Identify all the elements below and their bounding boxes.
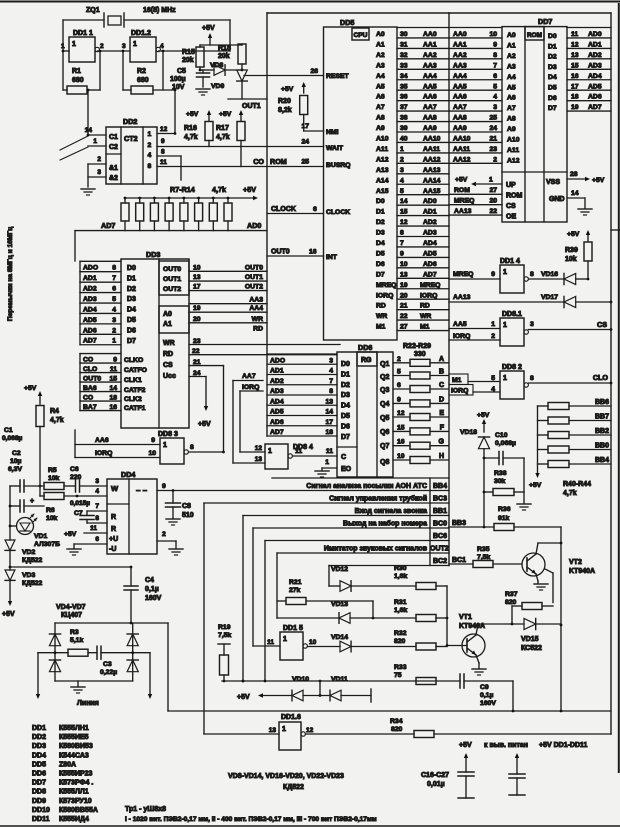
diode VD8	[199, 62, 244, 75]
svg-text:AA4: AA4	[423, 73, 437, 80]
svg-text:1: 1	[72, 41, 76, 48]
svg-text:AA2: AA2	[453, 52, 467, 59]
svg-text:23: 23	[489, 146, 497, 153]
signal row BB1 ring input	[243, 508, 449, 516]
svg-text:К580ВИ53: К580ВИ53	[59, 743, 93, 750]
capacitor C4 0,1u 160V	[124, 567, 162, 623]
svg-text:VD9: VD9	[211, 83, 224, 90]
svg-text:DD7: DD7	[538, 17, 552, 26]
svg-text:160V: 160V	[480, 700, 496, 707]
svg-text:12: 12	[306, 727, 314, 734]
svg-text:13: 13	[400, 271, 408, 278]
svg-text:16: 16	[109, 404, 117, 411]
svg-text:ROM: ROM	[527, 32, 542, 39]
CPU DD5 body	[324, 18, 398, 340]
svg-text:1,6k: 1,6k	[394, 607, 407, 614]
svg-text:+5V DD1-DD11: +5V DD1-DD11	[539, 742, 588, 749]
svg-text:WR: WR	[252, 316, 263, 323]
svg-text:0,015µ: 0,015µ	[70, 500, 90, 507]
svg-text:13: 13	[325, 398, 333, 405]
diode VD18 with +5V	[460, 412, 490, 527]
svg-text:A0: A0	[376, 31, 385, 38]
svg-text:0,1µ: 0,1µ	[480, 692, 493, 699]
wire signal row verticals	[204, 503, 329, 734]
jumper links 8/16MHz	[60, 136, 88, 160]
svg-text:CLO: CLO	[593, 373, 609, 382]
resistor array R7-R14 4,7k with +5V	[101, 185, 261, 231]
svg-text:A14: A14	[376, 177, 389, 184]
signal row BB4 analysis AON ATS	[157, 478, 449, 566]
resistor R33 and capacitor C9	[394, 664, 513, 711]
svg-text:18: 18	[109, 394, 117, 401]
svg-text:Q5: Q5	[380, 415, 389, 422]
svg-text:7: 7	[493, 62, 497, 69]
resistor R3 5,1k	[38, 629, 97, 656]
diode VD14 and resistor R32	[307, 630, 447, 652]
svg-text:VD12: VD12	[331, 566, 348, 573]
resistor R38	[483, 458, 531, 510]
svg-text:M1: M1	[452, 377, 462, 384]
svg-text:27: 27	[400, 324, 408, 331]
wire DD2 pins 2,3 and ground	[81, 156, 106, 195]
svg-text:IORQ: IORQ	[95, 450, 112, 457]
svg-text:D5: D5	[341, 413, 350, 420]
svg-text:AD1: AD1	[423, 209, 437, 216]
svg-text:EO: EO	[341, 466, 352, 473]
svg-text:A9: A9	[507, 126, 516, 133]
svg-text:D5: D5	[127, 317, 136, 324]
svg-text:39: 39	[400, 125, 408, 132]
bus ladder DD5 control rows MREQ IORQ RD WR M1	[397, 282, 449, 331]
svg-text:AD7: AD7	[101, 221, 115, 230]
svg-text:RD: RD	[376, 303, 386, 310]
gate DD1.5	[267, 625, 316, 660]
svg-text:RD: RD	[163, 351, 173, 358]
svg-text:DD7: DD7	[32, 780, 46, 787]
svg-text:Q7: Q7	[380, 443, 389, 450]
power +5V supply caps C16-C27	[421, 742, 588, 798]
transistor VT2 KT940A	[522, 542, 595, 603]
svg-text:8: 8	[400, 230, 404, 237]
svg-text:3: 3	[493, 104, 497, 111]
capacitor C3 0,22u	[97, 646, 150, 676]
svg-text:+5V: +5V	[64, 531, 77, 538]
svg-text:2: 2	[491, 333, 495, 340]
svg-text:DD1 4: DD1 4	[500, 258, 520, 265]
inverter DD1.2	[122, 30, 230, 62]
svg-text:8: 8	[329, 388, 333, 395]
svg-text:2: 2	[397, 356, 401, 363]
svg-text:AD2: AD2	[588, 52, 602, 59]
svg-text:1: 1	[268, 448, 272, 455]
svg-text:3: 3	[112, 317, 116, 324]
wire IORQ to DD8.3 pin 10	[75, 450, 160, 458]
resistor R35 on BC1 line	[449, 546, 522, 568]
svg-text:R31: R31	[394, 599, 407, 606]
svg-text:VD10: VD10	[292, 676, 309, 683]
svg-text:AA0: AA0	[423, 31, 437, 38]
svg-text:Сигнал анализа посылки АОН АТС: Сигнал анализа посылки АОН АТС	[306, 483, 427, 490]
svg-text:AD2: AD2	[423, 219, 437, 226]
wire DD1.5 input	[253, 645, 280, 647]
svg-text:A1: A1	[376, 41, 385, 48]
DD3 inner labels	[124, 265, 181, 412]
wire DD3 pin 24 Ucc +5V	[189, 370, 211, 428]
svg-text:A12: A12	[507, 157, 520, 164]
svg-text:DD5: DD5	[32, 761, 46, 768]
svg-text:VD18: VD18	[460, 429, 477, 436]
wire DD4 pin 9 output	[162, 483, 174, 492]
svg-text:17: 17	[571, 83, 579, 90]
svg-text:4: 4	[112, 306, 116, 313]
svg-text:4: 4	[160, 43, 164, 50]
svg-text:14: 14	[109, 385, 117, 392]
svg-text:DD8.1: DD8.1	[502, 311, 522, 318]
svg-text:10k: 10k	[46, 515, 58, 522]
svg-text:5,1k: 5,1k	[70, 637, 83, 644]
wire oscillator top	[63, 20, 230, 51]
svg-text:OE: OE	[506, 214, 516, 221]
svg-text:6: 6	[112, 286, 116, 293]
capacitor C1	[2, 427, 44, 492]
svg-text:AD1: AD1	[83, 275, 97, 282]
svg-text:CLOCK: CLOCK	[326, 209, 350, 216]
svg-text:D0: D0	[548, 33, 557, 40]
svg-text:R2: R2	[137, 68, 146, 75]
svg-text:AA6: AA6	[453, 94, 467, 101]
svg-text:D5: D5	[376, 250, 385, 257]
svg-text:4: 4	[493, 94, 497, 101]
wire DD1.4 pin 8 to VD16	[528, 271, 564, 279]
svg-text:9: 9	[400, 250, 404, 257]
svg-text:AD5: AD5	[270, 409, 284, 416]
wire M1 to DD8.2 pin 5	[449, 374, 500, 385]
wire DD2 pin 8	[157, 149, 181, 181]
svg-text:AA7: AA7	[423, 104, 437, 111]
svg-text:D3: D3	[127, 296, 136, 303]
DD3 right output ladder	[189, 264, 267, 332]
svg-text:Z80A: Z80A	[59, 761, 76, 768]
gate DD8.3	[158, 431, 188, 464]
wire AD bus line	[75, 231, 267, 261]
svg-text:20k: 20k	[218, 53, 230, 60]
svg-text:AD7: AD7	[423, 271, 437, 278]
svg-text:22: 22	[192, 348, 200, 355]
diode VD16	[541, 271, 589, 285]
svg-text:BB4: BB4	[433, 483, 447, 490]
svg-text:BC0: BC0	[433, 521, 447, 528]
diode VD9	[211, 70, 247, 99]
svg-text:A7: A7	[507, 105, 516, 112]
svg-text:AD7: AD7	[588, 104, 602, 111]
svg-text:DD6: DD6	[32, 771, 46, 778]
note diodes types	[228, 773, 344, 791]
svg-text:Ucc: Ucc	[163, 373, 176, 380]
svg-text:6,3V: 6,3V	[8, 466, 22, 473]
gate DD1.6	[269, 714, 314, 750]
svg-text:0,22µ: 0,22µ	[100, 669, 117, 676]
svg-text:CO: CO	[83, 356, 93, 363]
svg-text:C: C	[439, 382, 444, 389]
svg-text:АЛ307Б: АЛ307Б	[34, 541, 60, 548]
svg-text:VD11: VD11	[331, 676, 348, 683]
svg-text:4,7k: 4,7k	[184, 134, 198, 141]
svg-text:OUT0: OUT0	[83, 375, 101, 382]
svg-text:Выход на набор номера: Выход на набор номера	[343, 520, 427, 528]
svg-text:AA6: AA6	[95, 437, 109, 444]
svg-text:0,1µ: 0,1µ	[145, 586, 159, 593]
counter DD2	[106, 117, 157, 184]
resistor R2	[122, 50, 175, 94]
diode VD17 on AA13 line	[449, 294, 611, 308]
wire DD3 pin 21 CS to DD8.3	[189, 359, 224, 452]
svg-text:13: 13	[269, 727, 277, 734]
svg-text:AD3: AD3	[83, 296, 97, 303]
svg-text:INT: INT	[326, 254, 338, 261]
resistor R16 with +5V	[184, 110, 213, 147]
svg-text:CLKO: CLKO	[124, 357, 143, 364]
resistor R37	[505, 591, 553, 624]
svg-text:D6: D6	[341, 423, 350, 430]
svg-text:A2: A2	[507, 53, 516, 60]
svg-text:1: 1	[503, 322, 507, 329]
svg-text:BB3: BB3	[452, 520, 466, 527]
svg-text:A13: A13	[376, 167, 389, 174]
wire +5V VD10 VD11 line	[237, 676, 371, 702]
svg-text:AA2: AA2	[423, 52, 437, 59]
svg-text:+5V: +5V	[202, 25, 215, 32]
svg-text:A10: A10	[507, 137, 520, 144]
svg-text:820: 820	[391, 726, 403, 733]
svg-text:19: 19	[193, 305, 201, 312]
svg-text:A8: A8	[507, 116, 516, 123]
svg-text:B: B	[439, 369, 444, 376]
svg-text:+5V: +5V	[592, 177, 605, 184]
svg-text:160V: 160V	[145, 595, 162, 602]
svg-text:C: C	[341, 454, 346, 461]
gate DD8.1	[500, 311, 528, 346]
svg-text:OUT2: OUT2	[430, 546, 449, 553]
svg-text:19: 19	[397, 453, 405, 460]
svg-text:MREQ: MREQ	[376, 282, 396, 289]
svg-text:AA12: AA12	[423, 156, 441, 163]
svg-text:4: 4	[148, 152, 152, 159]
svg-text:к выв. питан: к выв. питан	[484, 742, 528, 749]
svg-text:D1: D1	[376, 209, 385, 216]
wire AA6 to DD8.3 pin 9	[75, 430, 160, 458]
svg-text:R4: R4	[50, 408, 59, 415]
LED VD1 АЛ307Б	[17, 514, 61, 548]
svg-text:3: 3	[122, 43, 126, 50]
outer box DD7 block	[449, 13, 611, 734]
wire left rail	[8, 486, 17, 606]
svg-text:D6: D6	[376, 261, 385, 268]
svg-text:OUT1: OUT1	[245, 274, 263, 281]
svg-text:R36: R36	[498, 506, 511, 513]
svg-text:К580ВВ55А: К580ВВ55А	[59, 807, 98, 814]
outer box DD5 block	[267, 13, 449, 436]
svg-text:0,068µ: 0,068µ	[495, 440, 516, 447]
svg-text:CATF2: CATF2	[124, 387, 146, 394]
svg-text:R21: R21	[289, 579, 302, 586]
svg-text:C5: C5	[177, 68, 186, 75]
svg-text:R3: R3	[70, 629, 79, 636]
svg-text:11: 11	[267, 639, 274, 646]
svg-text:5: 5	[112, 296, 116, 303]
diode VD15 КС522	[478, 618, 561, 652]
svg-text:6: 6	[397, 382, 401, 389]
svg-text:10k: 10k	[565, 256, 577, 263]
svg-text:OUT2: OUT2	[245, 284, 263, 291]
svg-text:10: 10	[309, 639, 317, 646]
svg-text:A2: A2	[376, 52, 385, 59]
svg-text:BC2: BC2	[433, 558, 447, 565]
svg-text:10: 10	[148, 450, 156, 457]
svg-text:11: 11	[326, 448, 333, 455]
svg-text:34: 34	[400, 73, 408, 80]
svg-text:R33: R33	[394, 664, 407, 671]
svg-text:NMI: NMI	[326, 129, 339, 136]
svg-text:R37: R37	[505, 591, 518, 598]
svg-text:5: 5	[397, 369, 401, 376]
svg-text:D2: D2	[376, 219, 385, 226]
wire DD8.2 pin 8 CLO output	[528, 373, 612, 384]
svg-text:DD1.6: DD1.6	[281, 714, 301, 721]
svg-text:D3: D3	[376, 230, 385, 237]
svg-text:15: 15	[571, 62, 579, 69]
capacitor C5	[170, 68, 210, 95]
svg-text:8: 8	[190, 444, 194, 451]
svg-text:15: 15	[397, 424, 405, 431]
svg-text:R35: R35	[477, 546, 490, 553]
svg-text:VT1: VT1	[459, 614, 472, 621]
svg-text:13: 13	[193, 274, 201, 281]
svg-text:12: 12	[397, 410, 405, 417]
svg-text:WR: WR	[163, 340, 175, 347]
svg-text:18: 18	[571, 94, 579, 101]
svg-text:14: 14	[571, 190, 579, 197]
svg-text:AD2: AD2	[83, 286, 97, 293]
svg-text:D7: D7	[341, 434, 350, 441]
svg-text:AA6: AA6	[423, 94, 437, 101]
svg-text:1: 1	[489, 177, 493, 184]
svg-text:1: 1	[133, 41, 137, 48]
wire DD8.1 pin 3 CS output	[528, 320, 612, 331]
svg-text:6: 6	[95, 536, 99, 543]
svg-text:A1: A1	[163, 321, 172, 328]
svg-text:CS: CS	[597, 320, 607, 329]
wire from bridge to bottom line	[167, 623, 169, 711]
svg-text:&1: &1	[109, 165, 118, 172]
svg-text:D0: D0	[376, 198, 385, 205]
svg-text:9: 9	[161, 138, 165, 145]
svg-text:VD2: VD2	[22, 549, 35, 556]
capacitor C2	[8, 450, 44, 512]
svg-text:10k: 10k	[48, 475, 60, 482]
svg-text:+5V: +5V	[281, 86, 294, 93]
svg-text:+5V: +5V	[237, 694, 250, 701]
svg-text:8: 8	[112, 265, 116, 272]
svg-text:3: 3	[97, 169, 101, 176]
svg-text:75: 75	[394, 672, 402, 679]
svg-text:R6: R6	[46, 507, 55, 514]
svg-text:DD1.2: DD1.2	[131, 30, 151, 37]
svg-text:27k: 27k	[289, 587, 301, 594]
svg-text:7: 7	[329, 378, 333, 385]
svg-text:C2: C2	[12, 450, 21, 457]
svg-text:680: 680	[137, 77, 149, 84]
svg-text:AA10: AA10	[453, 136, 471, 143]
svg-text:OUT0: OUT0	[163, 266, 181, 273]
svg-text:1: 1	[93, 138, 97, 145]
svg-text:VD1: VD1	[34, 533, 47, 540]
svg-text:К573РУ10: К573РУ10	[59, 798, 92, 805]
gate DD8.2	[500, 364, 528, 399]
wire DD1.6 pin 13	[204, 733, 279, 735]
svg-text:R20: R20	[278, 98, 291, 105]
svg-text:CLK1: CLK1	[124, 377, 142, 384]
svg-text:A3: A3	[376, 62, 385, 69]
svg-text:R17: R17	[216, 125, 229, 132]
svg-text:+5V: +5V	[567, 231, 580, 238]
svg-text:5: 5	[493, 83, 497, 90]
svg-text:AD0: AD0	[423, 198, 437, 205]
resistor R21 27k	[277, 579, 374, 619]
svg-text:10: 10	[193, 264, 201, 271]
wire DD8.3 pin 8 output	[188, 444, 225, 453]
wire line output arrows	[36, 653, 152, 707]
svg-text:CT2: CT2	[124, 134, 138, 143]
svg-text:C4: C4	[145, 577, 154, 584]
svg-text:AD4: AD4	[270, 398, 284, 405]
svg-text:AA3: AA3	[453, 62, 467, 69]
svg-text:D1: D1	[341, 371, 350, 378]
svg-text:CO: CO	[83, 394, 93, 401]
svg-text:1: 1	[400, 146, 404, 153]
svg-text:C1: C1	[109, 134, 118, 141]
svg-text:D4: D4	[127, 307, 136, 314]
svg-text:C16-C27: C16-C27	[421, 772, 449, 779]
capacitor C8 510	[166, 491, 194, 526]
svg-text:VD3: VD3	[22, 572, 35, 579]
crystal ZQ1	[86, 7, 176, 27]
svg-text:WAIT: WAIT	[326, 145, 344, 152]
capacitor C6 220	[70, 466, 82, 492]
wire DD2 pin 14	[85, 127, 106, 136]
svg-text:К555ИД4: К555ИД4	[59, 816, 89, 823]
svg-text:BA6: BA6	[83, 385, 97, 392]
svg-text:Имитатор звуковых сигналов: Имитатор звуковых сигналов	[324, 546, 428, 553]
svg-text:AA5: AA5	[453, 321, 467, 328]
svg-text:– –: – –	[136, 486, 148, 495]
svg-text:A3: A3	[507, 63, 516, 70]
svg-text:AD1: AD1	[270, 368, 284, 375]
svg-text:AA10: AA10	[423, 136, 441, 143]
svg-text:15: 15	[400, 209, 408, 216]
label jumpers vertical	[7, 227, 14, 321]
wire MREQ to DD1.4 pin 9	[449, 271, 500, 279]
svg-text:AA0: AA0	[453, 31, 467, 38]
svg-text:ROM: ROM	[454, 187, 470, 194]
note transformer Tr1	[125, 806, 377, 823]
svg-text:AA8: AA8	[453, 115, 467, 122]
svg-text:D1: D1	[127, 275, 136, 282]
diode VD12 and resistor R30	[329, 565, 447, 591]
svg-text:8,2k: 8,2k	[278, 107, 292, 114]
svg-text:К555ЛН1: К555ЛН1	[59, 725, 89, 732]
svg-text:ADO: ADO	[270, 357, 285, 364]
svg-text:R40-R44: R40-R44	[563, 481, 591, 488]
